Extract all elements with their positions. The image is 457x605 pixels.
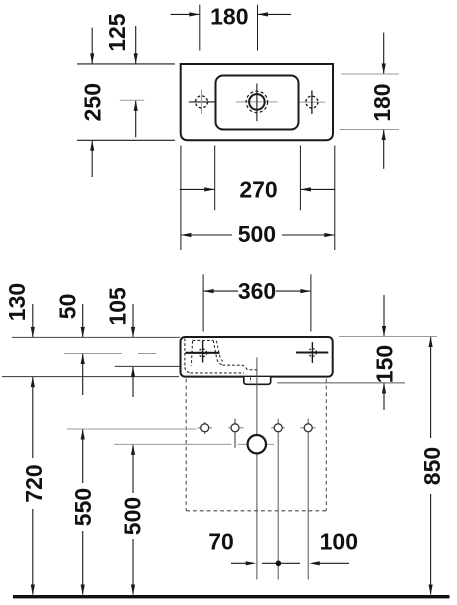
- svg-text:70: 70: [208, 529, 234, 555]
- svg-text:50: 50: [54, 294, 80, 320]
- svg-text:500: 500: [119, 497, 145, 535]
- svg-text:100: 100: [320, 529, 358, 555]
- svg-text:270: 270: [239, 176, 277, 202]
- svg-text:130: 130: [4, 283, 30, 321]
- svg-text:180: 180: [210, 3, 248, 29]
- svg-text:500: 500: [238, 221, 276, 247]
- svg-text:250: 250: [79, 83, 105, 121]
- svg-text:850: 850: [419, 447, 445, 485]
- svg-text:150: 150: [371, 345, 397, 383]
- svg-text:180: 180: [369, 83, 395, 121]
- svg-text:125: 125: [104, 13, 130, 52]
- svg-text:360: 360: [238, 278, 276, 304]
- svg-text:720: 720: [21, 464, 47, 502]
- svg-text:550: 550: [70, 488, 96, 526]
- svg-text:105: 105: [104, 287, 130, 326]
